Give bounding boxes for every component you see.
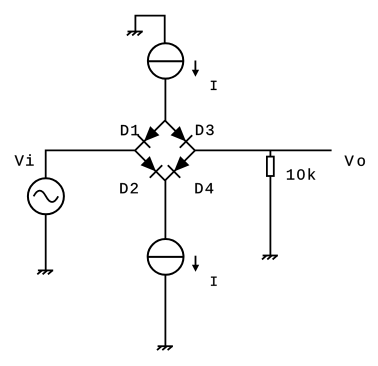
label I (bottom current) [211,277,217,286]
ground (below resistor) [262,256,278,260]
label D4 [195,183,213,193]
wire bridge bottom to current source I2 [164,181,166,240]
wire bridge right to output [195,149,332,151]
resistor R1 10k [267,150,274,176]
label Vo (output node) [345,156,365,166]
ground (top, chassis) [127,32,143,36]
wire from I1 to bridge top [164,79,166,121]
label I (top current) [211,81,217,90]
label D1 [121,125,139,135]
current direction arrow (top) [192,61,199,77]
label D3 [196,125,214,136]
diode D2 (bridge lower-left edge) [135,151,165,181]
diode D3 (bridge upper-right edge) [165,121,195,151]
wire top-left L from ground to current source [135,16,164,44]
AC source V1 [28,178,64,214]
label 10k (resistor value) [287,168,315,179]
wire bridge left to AC source [46,150,135,178]
diode D4 (bridge lower-right edge) [165,151,195,181]
wire I2 to ground [164,275,166,346]
current direction arrow (bottom) [192,256,199,272]
current source I2 (bottom) [148,239,184,275]
wire AC source to ground [45,214,47,270]
ground (below AC source) [37,270,53,274]
ground (bottom) [157,346,173,350]
label Vi (input node) [15,154,34,165]
wire resistor to ground [269,176,271,255]
diode D1 (bridge upper-left edge) [135,121,165,151]
current source I1 (top) [148,43,183,78]
label D2 [120,183,137,193]
